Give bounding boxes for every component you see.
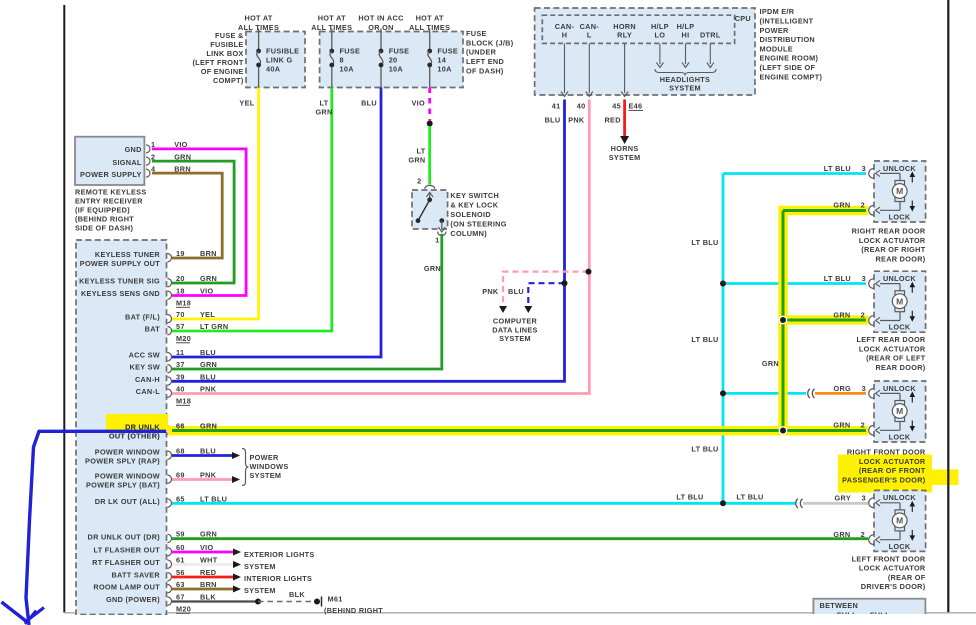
BCM pin 40 PNK [167, 389, 171, 397]
svg-text:CAN-L: CAN-L [136, 387, 160, 396]
svg-text:8: 8 [340, 56, 344, 65]
svg-text:ALL TIMES: ALL TIMES [409, 23, 450, 32]
pin 2 connector left front [869, 535, 874, 545]
svg-text:LOCK ACTUATOR: LOCK ACTUATOR [859, 564, 926, 573]
svg-text:HOT AT: HOT AT [318, 14, 346, 23]
fuse 20 10A [380, 32, 382, 50]
svg-text:COMPUTER: COMPUTER [493, 317, 538, 326]
svg-text:LT BLU: LT BLU [824, 164, 851, 173]
svg-text:CAN-H: CAN-H [135, 375, 160, 384]
svg-text:YEL: YEL [239, 98, 254, 107]
svg-text:(REAR OF LEFT: (REAR OF LEFT [866, 354, 926, 363]
wire ORG to right front actuator pin 3 [815, 392, 866, 395]
wire LT BLU branch to right front actuator [723, 392, 806, 395]
BCM pin 56 RED [167, 573, 171, 581]
svg-text:SYSTEM: SYSTEM [244, 562, 276, 571]
svg-text:POWER SUPPLY OUT: POWER SUPPLY OUT [80, 259, 160, 268]
svg-text:LOCK ACTUATOR: LOCK ACTUATOR [859, 457, 926, 466]
svg-text:DRIVER'S DOOR): DRIVER'S DOOR) [861, 582, 926, 591]
pin 3 connector right front [869, 389, 874, 399]
svg-text:HOT AT: HOT AT [245, 14, 273, 23]
wire PNK dashed to computer data lines [503, 272, 589, 305]
svg-text:POWER WINDOW: POWER WINDOW [95, 471, 160, 480]
svg-text:M: M [896, 186, 903, 196]
lock direction arrow right rear [911, 201, 913, 208]
wire BLU dashed to computer data lines [528, 283, 564, 305]
wire PNK CAN-L from IPDM 40 to BCM 40 [172, 100, 589, 394]
svg-text:GRN: GRN [762, 359, 779, 368]
svg-text:HORNS: HORNS [611, 144, 639, 153]
svg-text:(REAR OF FRONT: (REAR OF FRONT [859, 466, 926, 475]
svg-text:LT GRN: LT GRN [200, 322, 228, 331]
svg-text:(INTELLIGENT: (INTELLIGENT [760, 17, 814, 26]
wire BRN RKE 4 to BCM 19 [152, 173, 222, 258]
svg-text:OF ENGINE: OF ENGINE [201, 67, 244, 76]
svg-text:2: 2 [861, 420, 865, 429]
door lock actuator M1 right rear [874, 161, 926, 222]
svg-text:SYSTEM: SYSTEM [499, 334, 531, 343]
fuse 8 10A [331, 32, 333, 50]
svg-text:LOCK: LOCK [889, 212, 911, 221]
svg-text:10A: 10A [389, 65, 404, 74]
pin 2 connector left rear [869, 316, 874, 326]
pin 3 connector left front [869, 498, 874, 508]
junction on CAN-L [586, 269, 592, 275]
door lock actuator M2 left rear [874, 271, 926, 332]
svg-text:45: 45 [612, 102, 621, 111]
svg-text:2: 2 [861, 311, 865, 320]
svg-text:3: 3 [862, 384, 866, 393]
svg-text:(LEFT FRONT: (LEFT FRONT [192, 58, 243, 67]
lock direction arrow left rear [911, 311, 913, 318]
svg-text:KEYLESS TUNER SIG: KEYLESS TUNER SIG [79, 277, 160, 286]
svg-text:LOCK ACTUATOR: LOCK ACTUATOR [859, 236, 926, 245]
wire VIO LT flasher [172, 551, 233, 554]
svg-text:M18: M18 [176, 299, 191, 308]
annotation hand-drawn blue arrow [26, 431, 166, 625]
svg-text:OR ON: OR ON [368, 23, 393, 32]
svg-text:UNLOCK: UNLOCK [883, 274, 916, 283]
svg-text:SYSTEM: SYSTEM [244, 586, 276, 595]
svg-text:GRN: GRN [833, 420, 850, 429]
svg-text:FUSIBLE: FUSIBLE [210, 40, 243, 49]
svg-text:GRN: GRN [408, 156, 425, 165]
BCM pin 69 PNK [167, 475, 171, 483]
CPU block inside IPDM [542, 15, 734, 43]
connector interrupt left front [796, 499, 798, 508]
svg-text:M: M [896, 516, 903, 526]
between box (cut off at page bottom) [813, 599, 925, 625]
svg-text:POWER WINDOW: POWER WINDOW [95, 447, 160, 456]
svg-text:SOLENOID: SOLENOID [450, 210, 491, 219]
svg-text:(REAR OF: (REAR OF [888, 573, 926, 582]
fusible link box (power distribution) [246, 32, 305, 88]
svg-text:GRN: GRN [200, 422, 217, 431]
wire VIO RKE 1 to BCM 18 [152, 149, 246, 296]
svg-text:40: 40 [176, 385, 185, 394]
svg-text:H: H [562, 31, 568, 40]
svg-text:POWER SPLY (BAT): POWER SPLY (BAT) [86, 481, 160, 490]
svg-text:70: 70 [176, 310, 185, 319]
svg-text:LT BLU: LT BLU [824, 274, 851, 283]
BCM pin 59 GRN [167, 534, 171, 542]
node HOT AT ALL TIMES (fuse 14) [429, 29, 431, 32]
wire GRN from key switch pin 1 to BCM 37 [172, 234, 442, 369]
svg-text:SYSTEM: SYSTEM [669, 84, 701, 93]
svg-text:DATA LINES: DATA LINES [492, 325, 537, 334]
svg-text:BRN: BRN [174, 165, 191, 174]
svg-text:1: 1 [435, 236, 439, 245]
motor M right rear [895, 181, 905, 185]
svg-text:WINDOWS: WINDOWS [250, 462, 289, 471]
highlight mark on GRN circuit 66 horizontal [168, 426, 868, 435]
wire VIO dashed from fuse 14 [428, 88, 431, 121]
svg-text:FUSE: FUSE [389, 46, 410, 55]
RKE pin 4 [146, 169, 150, 177]
pin 2 connector right front [869, 426, 874, 436]
svg-text:LEFT FRONT DOOR: LEFT FRONT DOOR [852, 554, 926, 563]
BCM pin 20 GRN [167, 279, 171, 287]
svg-text:11: 11 [176, 348, 184, 357]
svg-text:GND (POWER): GND (POWER) [106, 595, 160, 604]
svg-text:UNLOCK: UNLOCK [883, 164, 916, 173]
svg-text:2: 2 [861, 200, 865, 209]
BCM pin 61 WHT [167, 560, 171, 568]
svg-text:DISTRIBUTION: DISTRIBUTION [760, 35, 816, 44]
BCM pin 19 BRN [167, 254, 171, 262]
RKE pin 1 [146, 145, 150, 153]
svg-text:(BEHIND RIGHT: (BEHIND RIGHT [75, 214, 134, 223]
node HOT AT ALL TIMES (fuse 8) [331, 29, 333, 32]
svg-text:DR UNLK OUT (DR): DR UNLK OUT (DR) [88, 532, 161, 541]
BCM pin 57 LT GRN [167, 327, 171, 335]
svg-text:BRN: BRN [200, 249, 217, 258]
BCM pin 18 VIO [167, 291, 171, 299]
headlights system brace [655, 69, 716, 76]
wire BLK ground [172, 600, 258, 602]
BCM pin 67 BLK [167, 597, 171, 605]
svg-text:IPDM E/R: IPDM E/R [760, 7, 795, 16]
svg-text:GRN: GRN [833, 530, 850, 539]
svg-text:KEY SW: KEY SW [130, 363, 160, 372]
svg-text:GRN: GRN [200, 274, 217, 283]
svg-text:BAT: BAT [145, 325, 161, 334]
svg-text:3: 3 [862, 164, 866, 173]
svg-text:GRN: GRN [833, 311, 850, 320]
ground M61 [314, 599, 320, 605]
wire BLU from fuse 20 to BCM 11 [172, 88, 381, 358]
svg-text:FUSE: FUSE [466, 29, 487, 38]
svg-text:19: 19 [176, 249, 185, 258]
svg-text:20: 20 [389, 56, 398, 65]
svg-text:& KEY LOCK: & KEY LOCK [450, 200, 498, 209]
BCM pin 39 BLU [167, 377, 171, 385]
svg-text:40A: 40A [266, 65, 281, 74]
svg-text:FUSE: FUSE [340, 46, 361, 55]
svg-text:BETWEEN: BETWEEN [820, 601, 859, 610]
svg-text:41: 41 [552, 102, 561, 111]
node HOT IN ACC OR ON (fuse 20) [380, 29, 382, 32]
svg-text:2: 2 [861, 530, 865, 539]
svg-text:M20: M20 [176, 605, 191, 614]
svg-text:SIDE OF DASH): SIDE OF DASH) [75, 223, 133, 232]
svg-text:GRY: GRY [835, 493, 851, 502]
svg-text:BLOCK (J/B): BLOCK (J/B) [466, 38, 514, 47]
svg-text:FUSIBLE: FUSIBLE [266, 46, 299, 55]
svg-text:M: M [896, 406, 903, 416]
svg-text:LINK G: LINK G [266, 56, 293, 65]
svg-text:BAT (F/L): BAT (F/L) [125, 313, 160, 322]
svg-text:ROOM LAMP OUT: ROOM LAMP OUT [93, 583, 160, 592]
highlight mark on DR UNLK label [106, 414, 168, 431]
svg-text:FUSE &: FUSE & [215, 31, 244, 40]
svg-text:POWER: POWER [760, 26, 789, 35]
svg-text:57: 57 [176, 322, 185, 331]
svg-text:RED: RED [604, 116, 620, 125]
svg-text:LT BLU: LT BLU [736, 493, 763, 502]
highlight mark on GRN circuit vertical [778, 206, 787, 435]
svg-text:66: 66 [176, 422, 185, 431]
wire WHT RT flasher [172, 563, 233, 566]
svg-text:BLU: BLU [200, 348, 216, 357]
svg-text:LT BLU: LT BLU [676, 493, 703, 502]
svg-text:PASSENGER'S DOOR): PASSENGER'S DOOR) [842, 476, 926, 485]
svg-text:ALL TIMES: ALL TIMES [238, 23, 279, 32]
pin 3 connector right rear [869, 169, 874, 179]
wire BLU power windows RAP [172, 454, 232, 457]
svg-text:POWER SUPPLY: POWER SUPPLY [80, 170, 142, 179]
svg-text:LEFT END: LEFT END [466, 57, 504, 66]
svg-text:BLU: BLU [200, 372, 216, 381]
svg-text:ENTRY RECEIVER: ENTRY RECEIVER [75, 196, 143, 205]
svg-text:10A: 10A [437, 65, 452, 74]
svg-text:HOT AT: HOT AT [416, 14, 444, 23]
junction LT BLU left rear branch [720, 281, 726, 287]
svg-text:KEYLESS SENS GND: KEYLESS SENS GND [81, 289, 160, 298]
svg-text:RT FLASHER OUT: RT FLASHER OUT [92, 558, 160, 567]
svg-text:BLU: BLU [361, 98, 377, 107]
wire YEL from fusible link to BCM 70 [172, 88, 259, 320]
svg-text:3: 3 [862, 274, 866, 283]
unlock direction arrow left front [911, 505, 913, 512]
power windows system brace [242, 449, 249, 486]
svg-text:REAR DOOR): REAR DOOR) [875, 255, 925, 264]
svg-text:37: 37 [176, 360, 185, 369]
highlight mark on right front door actuator caption [838, 455, 932, 486]
lock direction arrow left front [911, 530, 913, 537]
svg-text:DR LK OUT (ALL): DR LK OUT (ALL) [95, 497, 161, 506]
svg-text:SYSTEM: SYSTEM [609, 153, 641, 162]
fuse block (J/B) [320, 32, 463, 88]
svg-text:(IF EQUIPPED): (IF EQUIPPED) [75, 205, 130, 214]
svg-text:COMPT): COMPT) [213, 76, 244, 85]
lock direction arrow right front [911, 421, 913, 428]
svg-text:UNLOCK: UNLOCK [883, 384, 916, 393]
svg-text:LOCK: LOCK [889, 542, 911, 551]
svg-text:KEY SWITCH: KEY SWITCH [450, 191, 499, 200]
door lock actuator M3 right front [874, 381, 926, 442]
unlock direction arrow right rear [911, 176, 913, 183]
svg-text:ACC SW: ACC SW [129, 351, 160, 360]
BCM pin 70 YEL [167, 315, 171, 323]
svg-text:10A: 10A [340, 65, 355, 74]
svg-text:20: 20 [176, 274, 185, 283]
BCM body control module connector [76, 240, 167, 615]
svg-text:VIO: VIO [200, 287, 213, 296]
svg-text:FUSE: FUSE [437, 46, 458, 55]
pin 2 connector right rear [869, 206, 874, 216]
svg-text:BLU: BLU [545, 116, 561, 125]
wire GRN vertical riser [782, 211, 785, 431]
svg-text:ENGINE ROOM): ENGINE ROOM) [760, 54, 819, 63]
wire LT BLU branch to left rear actuator pin 3 [723, 282, 866, 285]
svg-text:INTERIOR LIGHTS: INTERIOR LIGHTS [244, 574, 312, 583]
svg-text:E46: E46 [629, 102, 643, 111]
fuse 14 10A [429, 32, 431, 50]
motor M right front [895, 401, 905, 405]
BCM pin 63 BRN [167, 585, 171, 593]
junction LT BLU right front branch [720, 390, 726, 396]
unlock direction arrow left rear [911, 286, 913, 293]
svg-text:LOCK: LOCK [889, 323, 911, 332]
svg-text:HOT IN ACC: HOT IN ACC [358, 14, 404, 23]
svg-text:18: 18 [176, 287, 185, 296]
svg-text:LEFT REAR DOOR: LEFT REAR DOOR [856, 335, 925, 344]
BCM pin 68 BLU [167, 451, 171, 459]
svg-text:VIO: VIO [412, 98, 425, 107]
wire GRY to left front actuator pin 3 [803, 502, 868, 505]
wire LT BLU branch to right rear actuator pin 3 [723, 172, 866, 175]
BCM pin 66 GRN [167, 426, 171, 434]
junction GRN riser / left rear branch [779, 316, 788, 325]
svg-text:(REAR OF RIGHT: (REAR OF RIGHT [861, 245, 925, 254]
svg-text:LINK BOX: LINK BOX [206, 49, 243, 58]
svg-text:SYSTEM: SYSTEM [250, 471, 282, 480]
node HOT AT ALL TIMES (fusible link) [258, 29, 260, 32]
svg-text:M61: M61 [328, 595, 343, 604]
svg-text:GRN: GRN [424, 264, 441, 273]
svg-text:RLY: RLY [617, 31, 632, 40]
wire GRN branch to left rear actuator pin 2 [783, 319, 866, 322]
unlock direction arrow right front [911, 396, 913, 403]
svg-text:HI: HI [682, 31, 690, 40]
BCM pin 65 LT BLU [167, 499, 171, 507]
wire PNK power windows BAT [172, 478, 232, 481]
svg-text:ORG: ORG [833, 384, 851, 393]
svg-text:ENGINE COMPT): ENGINE COMPT) [760, 72, 823, 81]
door lock actuator M4 left front [874, 490, 926, 551]
svg-text:UNLOCK: UNLOCK [883, 493, 916, 502]
svg-text:OF DASH): OF DASH) [466, 66, 504, 75]
svg-text:67: 67 [176, 593, 185, 602]
wire GRN door unlock (other) circuit 66 main run [172, 429, 866, 432]
wire BRN room lamp [172, 588, 233, 591]
highlight mark on GRN branch to left rear actuator [778, 315, 868, 324]
wire RED horn [623, 100, 626, 137]
BCM pin 60 VIO [167, 548, 171, 556]
svg-text:GND: GND [125, 145, 142, 154]
svg-text:LO: LO [655, 31, 666, 40]
svg-text:SIGNAL: SIGNAL [112, 158, 142, 167]
IPDM E/R module [535, 8, 755, 95]
svg-text:PNK: PNK [568, 116, 585, 125]
svg-text:POWER SPLY (RAP): POWER SPLY (RAP) [85, 457, 160, 466]
svg-text:GRN: GRN [315, 108, 332, 117]
svg-text:(UNDER: (UNDER [466, 48, 497, 57]
svg-text:L: L [587, 31, 592, 40]
wire LT GRN from fuse 8 to BCM 57 [172, 88, 332, 332]
svg-text:GRN: GRN [174, 152, 191, 161]
svg-text:3: 3 [862, 493, 866, 502]
BCM pin 11 BLU [167, 353, 171, 361]
wire LT BLU vertical riser [722, 174, 725, 504]
svg-text:39: 39 [176, 372, 185, 381]
svg-text:BLK: BLK [289, 590, 305, 599]
svg-text:VIO: VIO [174, 140, 187, 149]
svg-text:M: M [896, 296, 903, 306]
svg-text:(LEFT SIDE OF: (LEFT SIDE OF [760, 63, 816, 72]
svg-text:LT BLU: LT BLU [691, 445, 718, 454]
svg-text:2: 2 [417, 177, 421, 186]
svg-text:LOCK: LOCK [889, 432, 911, 441]
wire RED batt saver [172, 576, 233, 579]
junction LT BLU main run [720, 500, 726, 506]
svg-text:COLUMN): COLUMN) [450, 229, 487, 238]
svg-text:RIGHT REAR DOOR: RIGHT REAR DOOR [852, 227, 926, 236]
svg-text:OUT (OTHER): OUT (OTHER) [109, 432, 160, 441]
splice dot VIO to LT GRN [427, 121, 433, 127]
svg-text:REMOTE KEYLESS: REMOTE KEYLESS [75, 187, 147, 196]
svg-text:LT BLU: LT BLU [691, 335, 718, 344]
pin 3 connector left rear [869, 279, 874, 289]
junction GRN riser / main run [779, 426, 788, 435]
svg-text:BLU: BLU [508, 287, 524, 296]
svg-text:MODULE: MODULE [760, 44, 793, 53]
connector interrupt right front [808, 389, 810, 398]
wire BLU CAN-H from IPDM 41 to BCM 39 [172, 100, 565, 382]
motor M left front [895, 510, 905, 514]
svg-text:RIGHT FRONT DOOR: RIGHT FRONT DOOR [847, 448, 926, 457]
wire GRN branch to right rear actuator pin 2 [783, 209, 866, 212]
svg-text:LOCK ACTUATOR: LOCK ACTUATOR [859, 344, 926, 353]
svg-text:REAR DOOR): REAR DOOR) [875, 363, 925, 372]
svg-text:ALL TIMES: ALL TIMES [311, 23, 352, 32]
svg-text:EXTERIOR LIGHTS: EXTERIOR LIGHTS [244, 550, 315, 559]
svg-text:PNK: PNK [482, 287, 499, 296]
svg-text:M20: M20 [176, 334, 191, 343]
svg-text:M18: M18 [176, 397, 191, 406]
svg-text:HEADLIGHTS: HEADLIGHTS [660, 75, 710, 84]
wire LT GRN to key switch pin 2 [428, 126, 431, 185]
BCM pin 37 GRN [167, 365, 171, 373]
motor M left rear [895, 291, 905, 295]
svg-text:14: 14 [437, 56, 446, 65]
junction on CAN-H [562, 280, 568, 286]
svg-text:GRN: GRN [200, 360, 217, 369]
svg-text:LT FLASHER OUT: LT FLASHER OUT [94, 546, 161, 555]
svg-text:40: 40 [577, 102, 586, 111]
svg-text:CPU: CPU [735, 14, 751, 23]
svg-text:LT BLU: LT BLU [691, 238, 718, 247]
svg-text:LT: LT [320, 99, 329, 108]
highlight mark on GRN branch to right rear actuator [783, 206, 868, 215]
svg-text:KEYLESS TUNER: KEYLESS TUNER [95, 250, 161, 259]
wire GRN door unlock driver circuit 59 [172, 537, 868, 540]
wire LT BLU door lock circuit 65 main run [172, 502, 796, 505]
svg-text:(ON STEERING: (ON STEERING [450, 219, 506, 228]
wire GRN RKE 2 to BCM 20 [152, 161, 234, 283]
svg-text:YEL: YEL [200, 310, 215, 319]
